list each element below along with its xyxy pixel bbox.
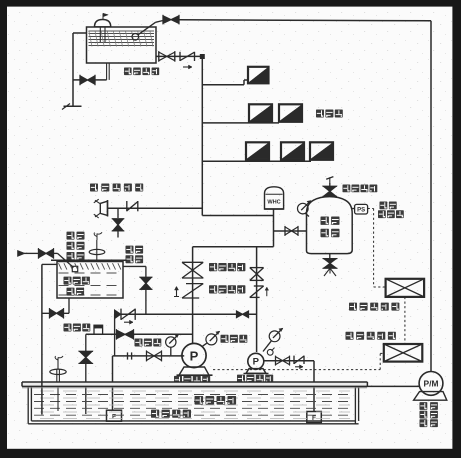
check valve 체크밸브 bbox=[182, 284, 203, 298]
jockey pump 충압펌프 bbox=[244, 353, 269, 373]
flow arrow on jockey suction bbox=[295, 365, 303, 369]
label 장치 (alarm line3) bbox=[67, 252, 85, 260]
jockey suction pipe bbox=[264, 360, 314, 362]
feed pipe to float bbox=[54, 253, 74, 267]
check valve on jockey riser bbox=[250, 286, 264, 297]
valve on priming outlet bbox=[50, 308, 64, 319]
drain valve (closed) bbox=[112, 219, 125, 231]
jockey suction drop pipe bbox=[313, 361, 315, 411]
pressure chamber vessel 압력챔버 bbox=[307, 197, 353, 254]
gate valve on suction bbox=[147, 350, 162, 361]
drain stub bbox=[117, 231, 119, 238]
label 고가수조 bbox=[124, 68, 159, 76]
signal wire PS to supervisory panel bbox=[368, 209, 386, 288]
pipe to pressure chamber bbox=[274, 230, 307, 232]
label 유량계 bbox=[64, 324, 91, 332]
tank vent pipe bbox=[50, 356, 66, 382]
label 경보 (alarm line2) bbox=[67, 242, 85, 250]
label 감시제어반 bbox=[349, 303, 399, 311]
pipe from elevated tank outlet bbox=[156, 55, 202, 57]
pipe from siamese connection bbox=[108, 207, 203, 209]
priming tank 물올림탱크 bbox=[51, 260, 127, 298]
label 압력 (pressure switch line1) bbox=[380, 202, 397, 210]
flow meter 유량계 bbox=[94, 325, 103, 334]
underground tank 지하수조 walls bbox=[28, 386, 358, 423]
circulation pipe 순환배관 bbox=[123, 266, 146, 314]
signal wire between panels bbox=[404, 297, 406, 344]
pipe bypass down to suction bbox=[114, 314, 116, 356]
priming tank vent bbox=[89, 232, 105, 260]
valve on chamber supply bbox=[285, 226, 298, 236]
fire pump discharge riser bbox=[192, 247, 194, 344]
gate valve on tank outlet bbox=[159, 51, 175, 62]
float in priming tank bbox=[72, 266, 77, 271]
flow arrow up beside check valve bbox=[174, 287, 179, 297]
label 소화전 bbox=[316, 110, 343, 118]
supervisory control panel 감시제어반 bbox=[386, 279, 425, 297]
foot valve 후드밸브 (jockey) bbox=[307, 412, 322, 423]
flow arrow under bypass check bbox=[124, 320, 133, 324]
chamber drain stem bbox=[329, 254, 331, 259]
label 압력 (chamber line 1) bbox=[321, 217, 340, 225]
safety valve 안전밸브 bbox=[323, 186, 338, 196]
label 감수 (alarm line1) bbox=[67, 232, 85, 240]
fire hydrant box 1 bbox=[248, 67, 269, 84]
label 챔버 (chamber line 2) bbox=[321, 229, 340, 237]
flow arrow right bbox=[183, 65, 192, 69]
drain pipe from elevated tank bottom bbox=[73, 63, 109, 80]
label 스위치 (pressure switch line2) bbox=[378, 210, 404, 218]
fire hydrant box 6 bbox=[310, 142, 333, 160]
label 연성계 bbox=[135, 339, 162, 347]
power wiring pumps to panel bbox=[213, 353, 384, 369]
fire pump 소화펌프 bbox=[177, 343, 213, 375]
drain valve (closed) on elevated tank drain bbox=[80, 75, 95, 86]
underground tank slab bbox=[22, 382, 367, 386]
gate valve 개폐밸브 bbox=[182, 262, 203, 278]
fire hydrant box 5 bbox=[281, 142, 304, 160]
label 순환 (circulation line1) bbox=[126, 246, 144, 254]
hydrant riser pipe bbox=[201, 56, 203, 215]
priming tank bottom outlet bbox=[42, 298, 69, 313]
label 급수 (PM line2) bbox=[420, 411, 438, 419]
drain tee below siamese line bbox=[117, 208, 119, 218]
pressure gauge on chamber bbox=[298, 201, 311, 217]
scan artifact line bbox=[22, 387, 367, 389]
label 후드밸브 bbox=[151, 410, 191, 418]
fire hydrant box 2 bbox=[249, 104, 272, 122]
svg-text:P/M: P/M bbox=[424, 379, 439, 389]
test line drop pipe bbox=[85, 334, 87, 351]
branch pipe to hydrant row 2 bbox=[202, 122, 279, 124]
valve on priming feed bbox=[39, 248, 54, 259]
label 물올림 (in tank) bbox=[64, 277, 90, 285]
check valve on siamese line bbox=[127, 201, 138, 211]
svg-text:P: P bbox=[190, 348, 199, 363]
flow arrow beside jockey check bbox=[265, 287, 269, 296]
junction fitting bbox=[200, 54, 205, 59]
pump discharge header pipe bbox=[193, 246, 274, 248]
small gauge on jockey pump bbox=[267, 348, 274, 356]
valve on jockey suction bbox=[276, 356, 290, 366]
pipe from float valve to fill valve bbox=[156, 21, 163, 23]
tank 고가수조 (elevated water tank) bbox=[87, 27, 157, 63]
priming tank feed arrow bbox=[18, 250, 39, 256]
priming tank left pipe bbox=[42, 264, 57, 414]
suction drop pipe bbox=[112, 356, 114, 410]
label 일반 (PM line1) bbox=[420, 402, 438, 410]
label 지하수조 bbox=[195, 396, 237, 405]
label 안전밸브 bbox=[343, 185, 378, 193]
check valve on jockey suction bbox=[294, 356, 304, 364]
compound gauge 연성계 bbox=[166, 334, 179, 356]
svg-text:P: P bbox=[253, 357, 260, 368]
overflow outlet end bbox=[62, 104, 82, 110]
fill valve on tank supply line bbox=[163, 15, 179, 25]
vent pipe into tank bbox=[57, 386, 59, 411]
foot valve 후드밸브 (fire pump) bbox=[107, 410, 122, 421]
union fitting on suction bbox=[128, 352, 132, 359]
label 펌프 (PM line3) bbox=[420, 419, 438, 427]
valve on test line bbox=[117, 329, 134, 340]
overflow pipe from elevated tank bbox=[73, 33, 87, 106]
float valve in elevated tank bbox=[132, 22, 156, 40]
safety valve top tick bbox=[326, 177, 333, 184]
jockey pump discharge riser bbox=[256, 247, 258, 352]
fire hydrant box 3 bbox=[279, 104, 302, 122]
label 체크밸브 bbox=[209, 285, 245, 293]
label 소화펌프 bbox=[174, 376, 210, 384]
test line discharge into tank bbox=[85, 363, 87, 414]
branch pipe to hydrant row 1 bbox=[202, 80, 248, 85]
gate valve on jockey riser bbox=[250, 268, 264, 281]
pipe riser to WHC junction bbox=[202, 215, 273, 217]
siamese connection 연결송수구 bbox=[94, 199, 108, 218]
pressure switch PS box bbox=[352, 204, 367, 214]
svg-text:WHC: WHC bbox=[267, 200, 280, 206]
vent pipe on elevated tank bbox=[94, 13, 111, 42]
water surface dashes in tank bbox=[34, 391, 353, 419]
pressure gauge (jockey) bbox=[263, 328, 283, 351]
tank supply pipe across top bbox=[180, 20, 432, 21]
label 충압펌프 bbox=[237, 375, 273, 383]
label 탱크 (in tank) bbox=[67, 288, 85, 296]
valve on bypass line bbox=[237, 311, 249, 318]
pump test pipe bbox=[86, 333, 193, 335]
label 연결송수구 bbox=[90, 184, 143, 192]
valve on circulation pipe bbox=[139, 277, 152, 289]
chamber drain outlet flare bbox=[324, 268, 336, 276]
bypass pipe between risers bbox=[115, 313, 257, 315]
check valve on bypass bbox=[114, 309, 135, 320]
label 배관 (circulation line2) bbox=[126, 255, 144, 263]
vertical pipe WHC to pump header bbox=[273, 209, 275, 247]
label 개폐밸브 bbox=[209, 263, 245, 271]
general water pump P/M bbox=[414, 372, 447, 401]
pressure gauge 압력계 (fire pump) bbox=[203, 331, 220, 346]
fire hydrant box 4 bbox=[246, 142, 269, 160]
check valve on tank outlet bbox=[180, 52, 195, 61]
PM pump suction pipe bbox=[355, 385, 420, 387]
label 동력제어반 bbox=[346, 332, 396, 340]
label 압력계 bbox=[221, 335, 248, 343]
WHC vessel (water hammer cushion) bbox=[265, 187, 284, 209]
safety valve stem bbox=[329, 183, 331, 197]
chamber drain valve bbox=[323, 259, 338, 269]
power control panel 동력제어반 bbox=[384, 344, 423, 362]
branch pipe to hydrant row 3 bbox=[202, 160, 311, 162]
supply riser down right side bbox=[430, 21, 432, 372]
valve on test line drop bbox=[79, 351, 94, 363]
fire pump suction pipe bbox=[113, 355, 185, 357]
svg-text:PS: PS bbox=[357, 208, 365, 214]
